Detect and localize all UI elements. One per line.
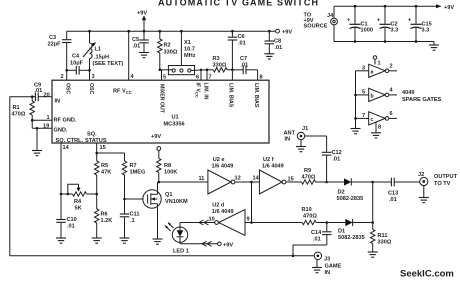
svg-text:R8: R8 xyxy=(164,163,171,169)
svg-text:SQ. CTRL.: SQ. CTRL. xyxy=(56,138,84,144)
capacitor C1 1000 xyxy=(354,5,357,8)
ground (rail) xyxy=(433,42,435,46)
svg-text:R11: R11 xyxy=(378,233,388,239)
wire input tie line xyxy=(355,71,357,129)
svg-text:12: 12 xyxy=(235,176,241,182)
svg-text:C13: C13 xyxy=(388,191,398,197)
svg-text:10.7: 10.7 xyxy=(184,47,195,53)
svg-text:.01: .01 xyxy=(241,63,249,69)
wire node to upper line xyxy=(372,182,374,223)
svg-text:C11: C11 xyxy=(130,212,140,218)
svg-text:J3: J3 xyxy=(324,257,330,263)
svg-text:LIM. BIAS: LIM. BIAS xyxy=(253,83,259,108)
svg-text:J1: J1 xyxy=(302,126,308,132)
svg-text:.01: .01 xyxy=(35,88,43,94)
svg-text:3.3: 3.3 xyxy=(391,28,399,34)
svg-text:D2: D2 xyxy=(338,190,345,196)
svg-text:6: 6 xyxy=(390,111,393,117)
ground (J2) xyxy=(419,198,429,203)
wire pin19 xyxy=(32,127,52,129)
svg-text:1/6 4049: 1/6 4049 xyxy=(212,209,234,215)
capacitor C9 xyxy=(32,96,35,98)
svg-text:U2 d: U2 d xyxy=(212,203,225,209)
capacitor C14 xyxy=(326,223,328,232)
svg-text:.01: .01 xyxy=(389,197,397,203)
capacitor C6 xyxy=(231,30,234,33)
svg-text:14: 14 xyxy=(253,176,260,182)
svg-text:470Ω: 470Ω xyxy=(12,112,26,118)
capacitor C3 xyxy=(66,31,68,39)
wire R10 to D1 xyxy=(316,222,345,224)
svg-text:47K: 47K xyxy=(101,170,111,176)
resistor R8 xyxy=(158,150,160,158)
svg-text:.01: .01 xyxy=(133,44,141,50)
svg-text:c: c xyxy=(371,117,374,123)
connector J2 xyxy=(420,177,428,185)
ground (C8) xyxy=(264,54,274,59)
svg-text:1/6 4049: 1/6 4049 xyxy=(262,163,284,169)
svg-text:TO TV: TO TV xyxy=(434,181,451,187)
ground (J3) xyxy=(312,268,322,273)
svg-text:5K: 5K xyxy=(75,206,82,212)
svg-text:2: 2 xyxy=(61,74,64,80)
svg-text:7: 7 xyxy=(209,75,212,81)
svg-text:+9V: +9V xyxy=(223,242,233,248)
svg-text:SeekIC.com: SeekIC.com xyxy=(400,269,454,280)
svg-text:2: 2 xyxy=(390,64,393,70)
pin 8 ground xyxy=(375,122,377,133)
ground (pin19) xyxy=(32,151,42,156)
node L1/C4 xyxy=(88,69,91,72)
wire R3 to C7 xyxy=(227,69,243,71)
svg-text:IF VCC: IF VCC xyxy=(194,83,200,98)
svg-text:9: 9 xyxy=(247,217,250,223)
svg-text:330Ω: 330Ω xyxy=(164,50,178,56)
inverter U3b xyxy=(369,88,386,101)
op-amp U1 body xyxy=(52,80,269,143)
svg-text:MC3356: MC3356 xyxy=(164,122,185,128)
ground (C10) xyxy=(56,238,66,243)
svg-text:R4: R4 xyxy=(74,199,82,205)
wire pin1 xyxy=(31,119,34,122)
svg-text:(SEE TEXT): (SEE TEXT) xyxy=(93,61,124,67)
svg-text:R5: R5 xyxy=(101,163,108,169)
svg-text:.01: .01 xyxy=(313,237,321,243)
LED LED1 xyxy=(172,227,187,242)
wire U2d out to LED xyxy=(180,222,215,224)
svg-text:MIXER OUT: MIXER OUT xyxy=(159,84,165,114)
svg-text:C14: C14 xyxy=(311,230,322,236)
svg-text:RF GND.: RF GND. xyxy=(54,118,77,124)
resistor R1 xyxy=(31,95,34,98)
svg-text:LIM. IN: LIM. IN xyxy=(203,83,209,100)
capacitor C13 xyxy=(373,181,392,183)
resistor R2 xyxy=(159,30,162,33)
svg-text:10pF: 10pF xyxy=(70,61,84,67)
wire main line xyxy=(159,181,208,183)
svg-text:22pF: 22pF xyxy=(48,42,62,48)
crystal filter X1 10.7 MHz xyxy=(180,30,183,33)
svg-text:C10: C10 xyxy=(67,217,77,223)
svg-text:LED 1: LED 1 xyxy=(173,249,189,255)
svg-text:SOURCE: SOURCE xyxy=(304,24,328,30)
wire pin2 xyxy=(66,70,68,80)
capacitor C4 xyxy=(67,69,76,71)
svg-text:5082-2835: 5082-2835 xyxy=(338,235,365,241)
resistor R9 xyxy=(302,180,316,184)
svg-text:3.3: 3.3 xyxy=(422,28,430,34)
wire gate xyxy=(125,198,144,200)
wire J4 to +9V rail xyxy=(333,6,335,18)
svg-text:+9V: +9V xyxy=(282,30,292,36)
svg-text:R7: R7 xyxy=(130,163,137,169)
wire pin14 vertical xyxy=(60,143,62,219)
svg-text:11: 11 xyxy=(199,176,205,182)
wire U2f out xyxy=(286,181,302,183)
diode D1 5082-2835 xyxy=(345,219,352,226)
wire pin9 xyxy=(231,70,233,80)
resistor R3 xyxy=(213,68,227,72)
ground (Q1) xyxy=(153,239,163,244)
svg-text:3: 3 xyxy=(92,74,95,80)
wire +9V bus xyxy=(67,30,276,32)
svg-text:14: 14 xyxy=(63,145,70,151)
connector J3 xyxy=(314,252,321,259)
wire pin3 xyxy=(89,70,91,80)
svg-text:+9V: +9V xyxy=(151,134,161,140)
wire pin7 xyxy=(206,70,208,80)
svg-text:SQ.: SQ. xyxy=(87,132,97,138)
svg-text:IN: IN xyxy=(285,137,291,143)
svg-text:Q1: Q1 xyxy=(165,192,172,198)
svg-text:3: 3 xyxy=(362,66,365,72)
svg-text:U1: U1 xyxy=(172,115,179,121)
capacitor C7 xyxy=(243,66,246,75)
wire J4 to ground rail xyxy=(333,25,335,42)
wire C14 to game line xyxy=(293,245,327,256)
svg-text:C6: C6 xyxy=(238,34,245,40)
ground (C11) xyxy=(120,238,130,243)
potentiometer R4 5K xyxy=(61,193,73,195)
wire ground rail xyxy=(334,41,434,43)
transistor Q1 VN10KM xyxy=(143,190,161,208)
wire pin6 xyxy=(200,70,202,80)
inverter U3c xyxy=(369,112,386,125)
svg-text:VN10KM: VN10KM xyxy=(165,199,188,205)
svg-text:RF VCC: RF VCC xyxy=(113,89,132,96)
capacitor C12 xyxy=(326,136,328,152)
svg-text:20: 20 xyxy=(44,93,50,99)
svg-text:R2: R2 xyxy=(164,43,171,49)
chevrons (U2d line) xyxy=(199,220,209,225)
pin 1 terminal xyxy=(373,56,377,60)
svg-text:+9V: +9V xyxy=(444,5,454,11)
svg-text:OSC: OSC xyxy=(88,83,94,94)
resistor R6 xyxy=(95,209,99,223)
svg-text:L1: L1 xyxy=(95,47,102,53)
wire X1 to pin7 xyxy=(191,69,207,72)
svg-text:1MEG: 1MEG xyxy=(130,170,146,176)
resistor R5 xyxy=(95,161,99,175)
svg-text:C7: C7 xyxy=(240,56,247,62)
svg-text:R3: R3 xyxy=(213,56,220,62)
svg-text:J2: J2 xyxy=(418,172,424,178)
svg-text:OSC: OSC xyxy=(65,83,71,94)
svg-text:7: 7 xyxy=(362,113,365,119)
svg-text:D1: D1 xyxy=(338,229,345,235)
capacitor C11 xyxy=(120,214,129,217)
resistor R7 xyxy=(124,153,126,161)
node L1 top xyxy=(88,30,91,33)
svg-text:15: 15 xyxy=(100,145,106,151)
svg-text:R10: R10 xyxy=(302,207,312,213)
+9V terminal on bus xyxy=(276,29,280,33)
svg-text:.01: .01 xyxy=(238,41,246,47)
svg-text:8: 8 xyxy=(378,125,381,131)
wire input left vertical xyxy=(10,97,32,256)
svg-text:+9V: +9V xyxy=(137,11,147,17)
svg-text:R1: R1 xyxy=(13,105,20,111)
wire pin15 to R7 xyxy=(97,152,125,154)
svg-text:470Ω: 470Ω xyxy=(303,214,317,220)
svg-text:.1: .1 xyxy=(130,218,135,224)
svg-text:SPARE GATES: SPARE GATES xyxy=(402,97,442,103)
ground (J1) xyxy=(296,147,306,152)
resistor R11 xyxy=(372,223,374,230)
svg-text:1/6 4049: 1/6 4049 xyxy=(212,163,234,169)
svg-text:.15µH: .15µH xyxy=(94,55,109,61)
svg-text:5: 5 xyxy=(163,75,166,81)
svg-text:470Ω: 470Ω xyxy=(302,175,316,181)
svg-text:4049: 4049 xyxy=(402,90,414,96)
wire R9 to D2 xyxy=(316,181,345,183)
wire R2 to X1 xyxy=(160,69,172,71)
ground (C5) xyxy=(139,53,149,58)
svg-text:10: 10 xyxy=(209,217,215,223)
capacitor C8 xyxy=(268,30,271,33)
wire pin5 xyxy=(161,70,163,80)
svg-text:b: b xyxy=(371,94,374,100)
svg-text:.01: .01 xyxy=(275,45,283,51)
svg-text:IN: IN xyxy=(325,270,331,276)
ground (R6) xyxy=(92,238,102,243)
inverter U3a xyxy=(369,64,386,77)
svg-text:C5: C5 xyxy=(132,37,139,43)
svg-text:AUTOMATIC TV GAME SWITCH: AUTOMATIC TV GAME SWITCH xyxy=(158,0,319,8)
svg-text:.01: .01 xyxy=(333,157,341,163)
svg-text:6: 6 xyxy=(196,75,199,81)
svg-text:5: 5 xyxy=(362,90,365,96)
svg-text:.01: .01 xyxy=(67,224,75,230)
svg-text:U2 f: U2 f xyxy=(263,157,274,163)
ground (input tie) xyxy=(351,129,361,134)
svg-text:5082-2835: 5082-2835 xyxy=(337,196,364,202)
svg-text:GND.: GND. xyxy=(54,128,68,134)
chevrons (LED line) xyxy=(202,241,212,246)
svg-text:MHz: MHz xyxy=(184,53,196,59)
svg-text:8: 8 xyxy=(260,75,263,81)
svg-text:a: a xyxy=(371,70,374,76)
wire U2e out to U2f in xyxy=(235,181,260,183)
svg-text:IN: IN xyxy=(55,99,61,105)
capacitor C10 xyxy=(56,220,65,223)
wire junction vertical xyxy=(251,182,253,223)
resistor R10 xyxy=(302,220,316,224)
capacitor C5 xyxy=(143,31,145,39)
svg-text:C4: C4 xyxy=(72,54,80,60)
svg-text:C8: C8 xyxy=(274,39,281,45)
wire pin4 xyxy=(128,31,130,80)
svg-text:R6: R6 xyxy=(101,212,108,218)
svg-text:1.2K: 1.2K xyxy=(101,218,113,224)
svg-text:330Ω: 330Ω xyxy=(213,63,227,69)
svg-text:1000: 1000 xyxy=(361,28,373,34)
svg-text:LIM. BIAS: LIM. BIAS xyxy=(228,83,234,108)
wire lower line xyxy=(252,222,303,224)
capacitor C15 3.3 xyxy=(415,5,418,8)
capacitor C2 3.3 xyxy=(384,5,387,8)
svg-text:R9: R9 xyxy=(304,168,311,174)
ground (R11) xyxy=(368,252,378,257)
wire +9V rail xyxy=(334,5,437,7)
svg-text:1: 1 xyxy=(378,61,381,67)
+9V terminal (LED) xyxy=(218,242,222,246)
svg-text:OUTPUT: OUTPUT xyxy=(434,174,458,180)
svg-text:STATUS: STATUS xyxy=(85,138,107,144)
wire LED to +9V xyxy=(179,242,181,243)
svg-text:U2 e: U2 e xyxy=(213,157,225,163)
svg-text:C12: C12 xyxy=(332,150,342,156)
svg-text:GAME: GAME xyxy=(325,263,342,269)
diode D2 5082-2835 xyxy=(344,178,351,185)
svg-text:330Ω: 330Ω xyxy=(378,240,392,246)
inductor L1 (variable, see text) xyxy=(89,31,91,43)
svg-text:100K: 100K xyxy=(164,170,177,176)
wire game input bottom xyxy=(10,255,314,257)
wire pin15 vertical xyxy=(96,143,98,161)
svg-text:X1: X1 xyxy=(184,40,191,46)
svg-text:C3: C3 xyxy=(49,35,56,41)
wire pin8 xyxy=(257,70,259,80)
node C3/C4 xyxy=(65,69,68,72)
